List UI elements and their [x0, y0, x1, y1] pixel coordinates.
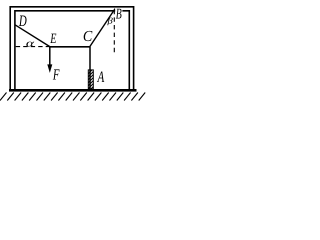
svg-text:B: B	[116, 7, 122, 23]
svg-text:A: A	[97, 69, 105, 86]
svg-text:E: E	[50, 31, 57, 47]
svg-text:α: α	[26, 38, 35, 49]
frame outer wall	[10, 7, 133, 90]
svg-text:C: C	[83, 28, 93, 45]
svg-text:D: D	[18, 13, 27, 30]
rod CA	[89, 47, 91, 89]
node B label	[115, 7, 122, 23]
hatched support post at A	[88, 68, 94, 92]
dashed vertical reference line at B	[113, 10, 115, 53]
frame inner wall	[15, 11, 129, 90]
svg-text:β: β	[106, 17, 114, 26]
svg-text:F: F	[52, 66, 60, 83]
force F arrow	[47, 47, 52, 73]
dashed horizontal reference line at E	[16, 46, 50, 48]
ground hatching	[0, 93, 145, 101]
rod EC	[50, 46, 90, 48]
rod CB	[90, 9, 115, 47]
ground line	[9, 89, 137, 92]
rod DE	[15, 25, 50, 47]
